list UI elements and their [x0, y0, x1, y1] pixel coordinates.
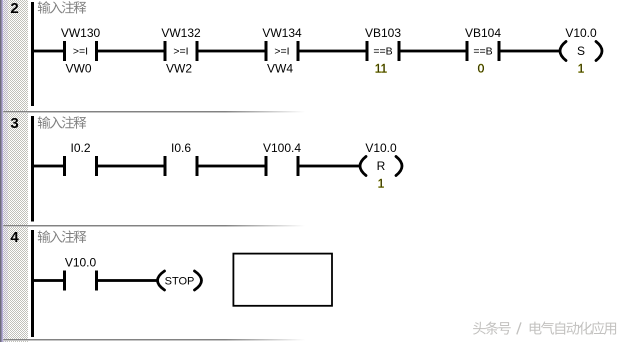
coil V10.0 right parenthesis: [396, 157, 402, 176]
network number column dithered background: [3, 0, 28, 342]
svg-text:I0.6: I0.6: [171, 141, 191, 155]
svg-text:VB104: VB104: [465, 26, 501, 40]
contact VW130 left bar: [63, 41, 66, 61]
svg-text:==B: ==B: [473, 46, 492, 58]
contact VB103 left bar: [366, 41, 369, 61]
svg-text:V10.0: V10.0: [565, 26, 597, 40]
svg-text:>=I: >=I: [173, 46, 188, 58]
coil V10.0 right parenthesis: [596, 42, 602, 61]
contact I0.6 right bar: [196, 156, 199, 176]
svg-text:1: 1: [578, 62, 585, 76]
wire net2: rail to VW130 contact: [33, 50, 65, 53]
coil V10.0 left parenthesis: [360, 157, 366, 176]
wire net4: rail to V10.0 contact: [33, 279, 65, 282]
contact V10.0 left bar: [63, 271, 66, 291]
svg-text:>=I: >=I: [73, 46, 88, 58]
svg-text:>=I: >=I: [274, 46, 289, 58]
wire net3: V100.4 to R coil: [298, 165, 361, 168]
svg-text:VW134: VW134: [262, 26, 302, 40]
svg-text:2: 2: [10, 0, 18, 17]
network 4 left power rail: [31, 230, 34, 337]
svg-text:0: 0: [478, 62, 485, 76]
svg-text:3: 3: [10, 115, 18, 132]
svg-text:VW4: VW4: [267, 62, 293, 76]
contact VB104 right bar: [498, 41, 501, 61]
svg-text:1: 1: [378, 177, 385, 191]
contact VW130 right bar: [95, 41, 98, 61]
svg-text:VW0: VW0: [65, 62, 91, 76]
contact VB103 right bar: [398, 41, 401, 61]
contact VW134 left bar: [265, 41, 268, 61]
network 3 left power rail: [31, 116, 34, 222]
svg-text:11: 11: [375, 62, 388, 76]
separator between network 2 and 3: [3, 111, 308, 112]
network 2 comment 输入注释: [38, 1, 87, 13]
svg-text:V10.0: V10.0: [65, 256, 97, 270]
svg-text:I0.2: I0.2: [70, 141, 90, 155]
contact I0.2 right bar: [95, 156, 98, 176]
network 3 comment 输入注释: [38, 116, 87, 128]
contact VB104 left bar: [466, 41, 469, 61]
left window edge purple stripe: [2, 0, 4, 342]
wire net2: VB103 to VB104 contact: [399, 50, 468, 53]
wire net2: VW134 to VB103 contact: [298, 50, 368, 53]
network 4 comment 输入注释: [38, 230, 87, 242]
separator between network 3 and 4: [3, 225, 308, 226]
svg-text:VW2: VW2: [166, 62, 192, 76]
empty network box placeholder: [233, 254, 332, 306]
wire net3: I0.6 to V100.4 contact: [197, 165, 267, 168]
separator at bottom: [3, 339, 308, 340]
wire net2: VW130 to VW132 contact: [96, 50, 166, 53]
svg-text:V100.4: V100.4: [263, 141, 301, 155]
watermark 头条号 / 电气自动化应用 (embossed white underlay): [474, 323, 617, 336]
coil None right parenthesis: [195, 271, 202, 290]
contact V10.0 right bar: [95, 271, 98, 291]
svg-text:VB103: VB103: [365, 26, 401, 40]
network 2 left power rail: [31, 2, 34, 106]
wire net2: VW132 to VW134 contact: [197, 50, 267, 53]
wire net2: VB104 to S coil: [499, 50, 561, 53]
coil V10.0 left parenthesis: [560, 42, 566, 61]
contact VW132 right bar: [196, 41, 199, 61]
svg-text:==B: ==B: [373, 46, 392, 58]
contact V100.4 right bar: [297, 156, 300, 176]
wire net4: V10.0 contact to STOP coil: [96, 279, 158, 282]
svg-text:S: S: [577, 44, 585, 58]
wire net3: I0.2 to I0.6 contact: [96, 165, 166, 168]
svg-text:VW132: VW132: [161, 26, 201, 40]
watermark 头条号 / 电气自动化应用: [473, 321, 616, 334]
svg-text:R: R: [377, 159, 386, 173]
svg-text:VW130: VW130: [61, 26, 101, 40]
svg-text:V10.0: V10.0: [365, 141, 397, 155]
svg-text:STOP: STOP: [165, 276, 195, 288]
contact V100.4 left bar: [265, 156, 268, 176]
coil None left parenthesis: [158, 271, 165, 290]
left window edge dark border: [0, 0, 2, 342]
contact I0.2 left bar: [63, 156, 66, 176]
wire net3: rail to I0.2 contact: [33, 165, 65, 168]
contact VW132 left bar: [164, 41, 167, 61]
svg-text:4: 4: [10, 229, 19, 246]
contact I0.6 left bar: [164, 156, 167, 176]
contact VW134 right bar: [297, 41, 300, 61]
